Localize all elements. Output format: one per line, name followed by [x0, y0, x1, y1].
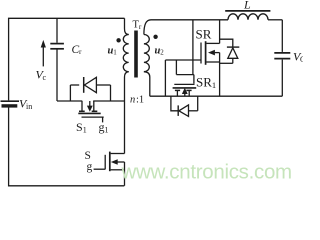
svg-text:g1: g1 [99, 120, 109, 135]
svg-text:r: r [79, 47, 82, 56]
svg-text:1: 1 [113, 49, 117, 57]
svg-text:in: in [26, 102, 32, 111]
svg-text:S1: S1 [76, 120, 87, 135]
svg-text:L: L [243, 0, 251, 12]
svg-text:Tr: Tr [133, 20, 142, 32]
svg-text:2: 2 [160, 49, 164, 57]
svg-text:g: g [87, 161, 93, 173]
svg-text:SR1: SR1 [196, 74, 216, 90]
svg-text:c: c [43, 73, 47, 82]
svg-text:www.cntronics.com: www.cntronics.com [121, 161, 292, 184]
svg-text:O: O [300, 55, 303, 64]
svg-text:SR: SR [196, 26, 212, 41]
svg-text:n: n [130, 95, 135, 106]
svg-text::1: :1 [136, 95, 144, 106]
